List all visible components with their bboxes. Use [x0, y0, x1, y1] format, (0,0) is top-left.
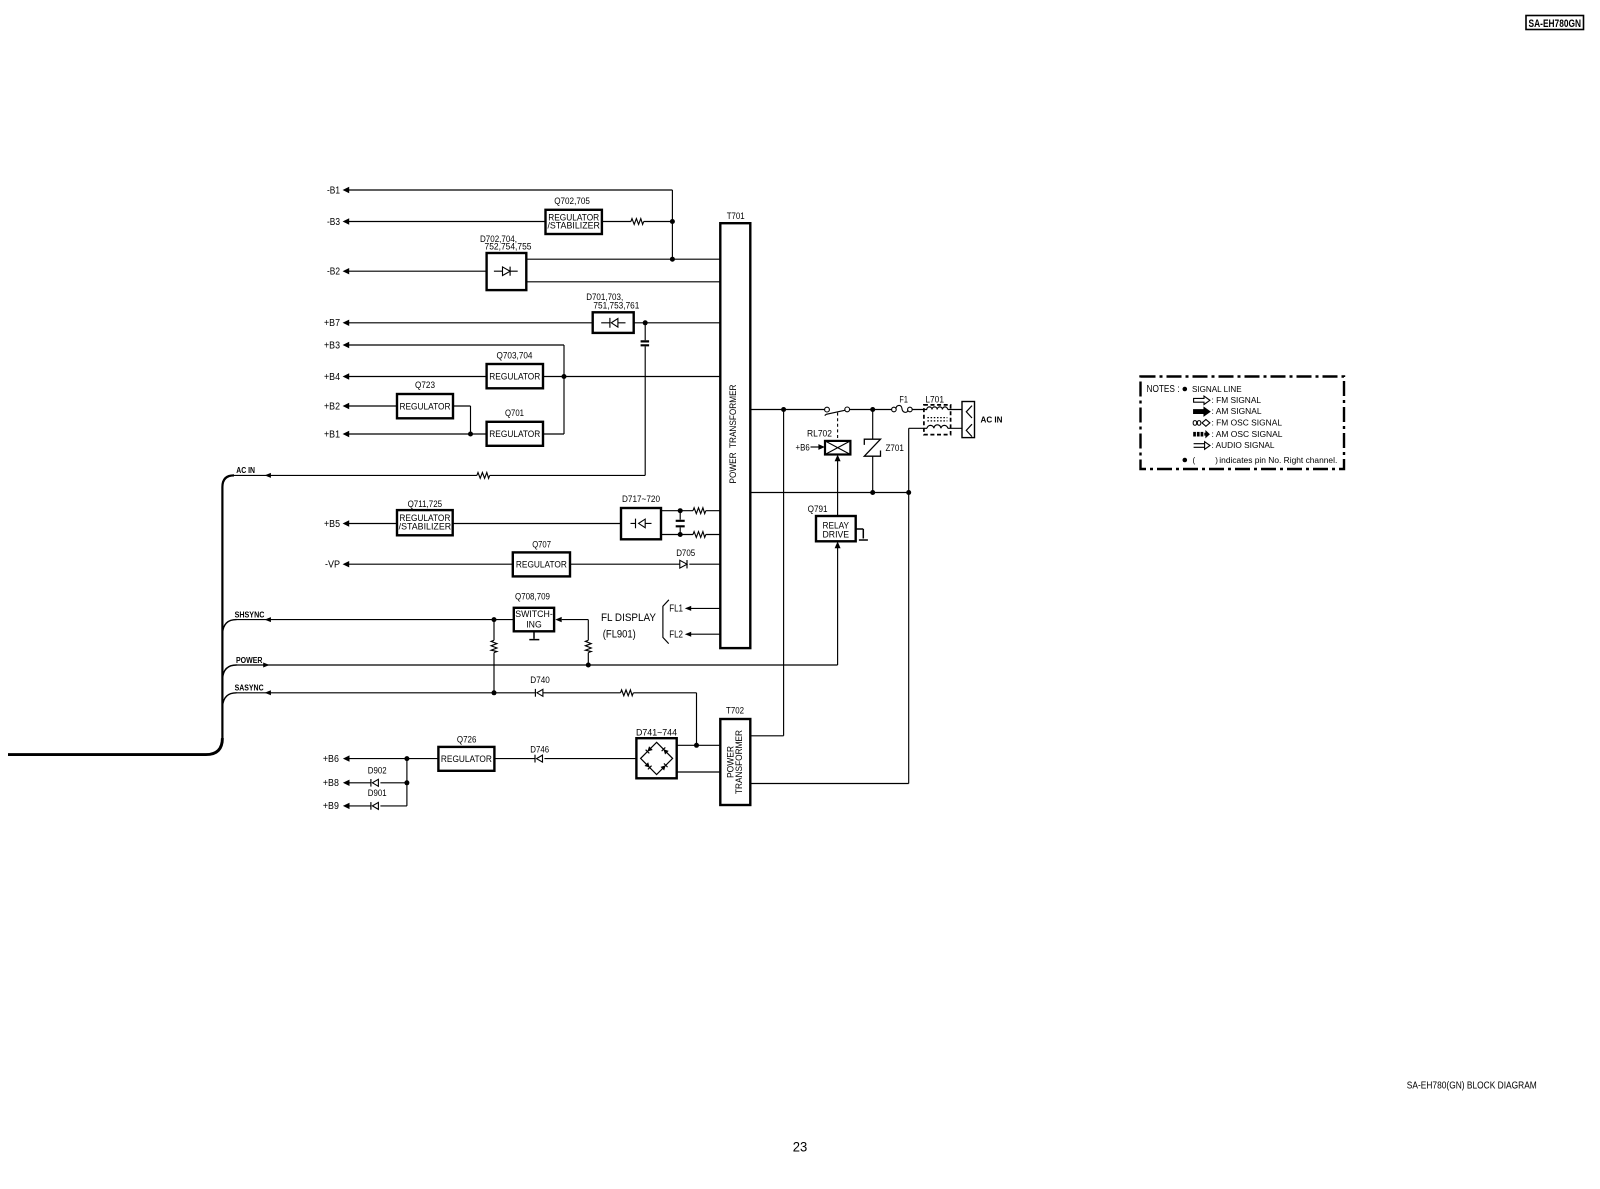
svg-text:FL2: FL2 — [669, 629, 683, 640]
regulator/stabilizer Q702,705 — [546, 196, 602, 234]
svg-text:REGULATOR: REGULATOR — [489, 372, 540, 382]
varistor Z701 — [864, 439, 904, 456]
svg-text:SA-EH780GN: SA-EH780GN — [1529, 18, 1582, 30]
svg-text:F1: F1 — [899, 394, 908, 404]
svg-text:+B6: +B6 — [796, 442, 810, 452]
svg-text:indicates pin No. Right channe: indicates pin No. Right channel. — [1219, 456, 1337, 465]
wire vertical to T702 right bottom — [750, 493, 908, 784]
junction T701 out/T702 branch — [781, 407, 786, 412]
resistor on AC IN line — [477, 473, 490, 479]
wire +B6 — [348, 758, 636, 760]
node +B3 label and arrow — [324, 340, 349, 351]
wire D702 output bottom — [526, 281, 720, 283]
power switch — [825, 407, 850, 416]
svg-text:D746: D746 — [530, 744, 549, 754]
wire -B2 — [348, 270, 487, 272]
junction D717 top/capacitor — [678, 508, 683, 513]
diode block D702,704,752,754,755 — [480, 234, 532, 290]
svg-text:: FM SIGNAL: : FM SIGNAL — [1212, 396, 1262, 405]
svg-text:SWITCH-: SWITCH- — [515, 609, 553, 619]
node +B6 into relay — [796, 442, 825, 452]
wire +B1 — [348, 433, 564, 435]
svg-text:D705: D705 — [676, 548, 695, 558]
junction -B1/D702 top — [670, 257, 675, 262]
svg-text:752,754,755: 752,754,755 — [485, 242, 532, 252]
relay drive Q791 — [808, 504, 856, 542]
wire Z701 branch — [872, 410, 874, 493]
node -VP label and arrow — [325, 560, 349, 571]
resistor on -B3 line — [631, 219, 644, 225]
junction +B4/+B3 — [562, 374, 567, 379]
junction SASYNC/bridge output — [694, 743, 699, 748]
svg-text:ING: ING — [526, 620, 542, 630]
wire bridge output top — [677, 744, 721, 746]
regulator Q701 — [487, 408, 543, 446]
svg-text:POWER: POWER — [236, 656, 263, 665]
dashed link switch to relay RL702 — [837, 413, 839, 441]
wire +B5 — [348, 523, 621, 525]
svg-text:REGULATOR: REGULATOR — [516, 560, 567, 570]
svg-text:-B1: -B1 — [327, 185, 340, 196]
svg-text:: FM OSC SIGNAL: : FM OSC SIGNAL — [1212, 419, 1283, 428]
svg-text:+B1: +B1 — [324, 429, 340, 440]
svg-text:SASYNC: SASYNC — [235, 683, 264, 692]
node +B4 label and arrow — [324, 372, 349, 383]
node SHSYNC label and arrow — [235, 611, 271, 623]
svg-text:Q723: Q723 — [415, 380, 435, 390]
svg-text:AC IN: AC IN — [236, 466, 255, 475]
wire vertical +B6/+B8/+B9 — [406, 759, 408, 806]
wire branch curve POWER — [223, 665, 237, 679]
legend AM signal arrow — [1194, 407, 1210, 415]
wire POWER — [236, 548, 838, 665]
node +B8 label and arrow — [323, 778, 350, 789]
wire SASYNC — [236, 693, 697, 746]
svg-text:D717~720: D717~720 — [622, 494, 660, 504]
wire left resistor branch SHSYNC to SASYNC — [493, 620, 495, 693]
node -B3 label and arrow — [327, 217, 349, 228]
wire harness bus vertical — [222, 475, 234, 739]
svg-text:POWER TRANSFORMER: POWER TRANSFORMER — [728, 384, 738, 483]
svg-text:REGULATOR: REGULATOR — [489, 429, 540, 439]
wire +B7 — [348, 322, 720, 324]
wire relay drive to relay coil with arrow — [835, 455, 841, 516]
wire -B3 — [348, 221, 672, 223]
node +B7 label and arrow — [324, 318, 349, 329]
resistor on SASYNC line — [621, 690, 634, 696]
node +B2 label and arrow — [324, 401, 349, 412]
svg-text:/STABILIZER: /STABILIZER — [547, 221, 600, 231]
svg-text:Q708,709: Q708,709 — [515, 592, 550, 602]
svg-text:Q711,725: Q711,725 — [408, 499, 443, 509]
fuse F1 — [892, 394, 913, 412]
svg-text:Q707: Q707 — [532, 540, 551, 550]
svg-text:(FL901): (FL901) — [603, 628, 636, 640]
regulator Q703,704 — [487, 351, 543, 389]
power transformer T701 — [720, 211, 750, 648]
svg-text:): ) — [1215, 456, 1218, 465]
wire branch curve SASYNC — [223, 693, 237, 706]
regulator Q707 — [513, 540, 570, 577]
svg-text:+B4: +B4 — [324, 372, 340, 383]
junction Z701/lower line — [870, 490, 875, 495]
svg-text:TRANSFORMER: TRANSFORMER — [734, 730, 744, 794]
svg-text:Q701: Q701 — [505, 408, 524, 418]
regulator Q726 — [438, 735, 494, 771]
diode D740 — [535, 689, 543, 697]
connector AC IN — [962, 402, 1003, 438]
wire +B8 — [348, 782, 407, 784]
svg-text:+B2: +B2 — [324, 401, 340, 412]
arrow into switching box — [555, 617, 561, 622]
svg-text:Q726: Q726 — [457, 735, 477, 745]
notes legend box — [1141, 377, 1345, 470]
svg-text:L701: L701 — [925, 394, 944, 404]
junction +B8 feed — [404, 780, 409, 785]
svg-text:Q703,704: Q703,704 — [497, 351, 533, 361]
legend FM OSC signal symbol — [1193, 421, 1196, 426]
model number plate SA-EH780GN — [1526, 16, 1584, 30]
svg-text:REGULATOR: REGULATOR — [441, 754, 492, 764]
ground under switching box — [529, 631, 539, 639]
wire vertical to T702 right top — [750, 410, 783, 736]
svg-text:FL DISPLAY: FL DISPLAY — [601, 612, 657, 624]
diode D901 — [371, 802, 379, 810]
svg-text:-B3: -B3 — [327, 217, 340, 228]
svg-text:AC IN: AC IN — [981, 416, 1003, 425]
node SASYNC label and arrow — [235, 683, 271, 695]
wire FL2 with arrow — [685, 632, 721, 637]
wire SHSYNC — [236, 619, 514, 621]
junction +B7/capacitor — [643, 320, 648, 325]
arrow POWER into relay drive — [835, 542, 841, 549]
svg-text:/STABILIZER: /STABILIZER — [399, 521, 452, 531]
junction AC return/lower line — [906, 490, 911, 495]
wire switch box right arm with vertical resistor — [562, 620, 589, 665]
wire +B9 — [348, 805, 407, 807]
wire -VP — [348, 563, 720, 565]
wire +B2 — [348, 406, 471, 434]
bracket for FL display pins — [663, 600, 669, 644]
svg-text:Q791: Q791 — [808, 504, 828, 514]
svg-text:: AM OSC SIGNAL: : AM OSC SIGNAL — [1212, 430, 1284, 439]
bridge rectifier D741~744 — [636, 728, 677, 779]
diode block D717~720 — [621, 494, 661, 539]
diode D705 — [680, 560, 687, 568]
line filter L701 — [924, 394, 951, 434]
svg-text:D741~744: D741~744 — [636, 728, 677, 738]
svg-text:SIGNAL LINE: SIGNAL LINE — [1192, 385, 1242, 394]
capacitor on D717 outputs — [679, 511, 681, 535]
wire branch curve SHSYNC — [223, 620, 237, 633]
svg-text:+B8: +B8 — [323, 778, 339, 789]
svg-text:+B9: +B9 — [323, 801, 339, 812]
svg-text:SA-EH780(GN) BLOCK DIAGRAM: SA-EH780(GN) BLOCK DIAGRAM — [1407, 1081, 1537, 1092]
legend AUDIO signal arrow — [1194, 444, 1205, 448]
junction SHSYNC/resistor — [492, 617, 497, 622]
legend FM signal arrow — [1194, 396, 1210, 404]
svg-text:23: 23 — [793, 1139, 808, 1155]
node POWER label and arrow — [236, 656, 270, 668]
wire FL1 with arrow — [685, 606, 721, 611]
junction switch/Z701 — [870, 407, 875, 412]
node +B5 label and arrow — [324, 519, 349, 530]
svg-text:(: ( — [1193, 456, 1196, 465]
svg-text:+B7: +B7 — [324, 318, 340, 329]
wire D702 output top — [526, 258, 720, 260]
regulator Q723 — [397, 380, 453, 418]
wire L701 bottom to lower line — [909, 428, 962, 492]
wire capacitor branch to AC line — [644, 323, 646, 476]
node AC IN left label and arrow — [236, 466, 271, 478]
svg-text:-VP: -VP — [325, 560, 340, 571]
diode block D701,703,751,753,761 — [586, 292, 639, 333]
junction SASYNC/resistor — [492, 690, 497, 695]
svg-text:: AUDIO SIGNAL: : AUDIO SIGNAL — [1212, 441, 1276, 450]
wire bridge output bottom — [677, 771, 721, 773]
switching Q708,709 — [514, 592, 554, 632]
junction D717 bottom/capacitor — [678, 532, 683, 537]
node +B6 label and arrow — [323, 754, 350, 765]
wire long line T701 right lower — [750, 492, 908, 494]
svg-text:+B3: +B3 — [324, 340, 340, 351]
wire harness bus bottom-left — [8, 738, 222, 755]
diode D746 — [535, 755, 543, 763]
svg-text:FL1: FL1 — [669, 604, 683, 615]
svg-text:Q702,705: Q702,705 — [554, 196, 590, 206]
svg-text:DRIVE: DRIVE — [823, 530, 850, 540]
wire D717 output bottom with resistor — [661, 534, 720, 536]
ground at relay drive — [856, 529, 868, 540]
node -B2 label and arrow — [327, 267, 349, 278]
junction +B6 feed — [404, 756, 409, 761]
node +B1 label and arrow — [324, 429, 349, 440]
wire +B4 — [348, 376, 720, 378]
wire AC IN line — [232, 474, 645, 476]
svg-text:SHSYNC: SHSYNC — [235, 611, 265, 620]
wire T701 right top to switch — [750, 409, 962, 411]
node +B9 label and arrow — [323, 801, 350, 812]
junction POWER/resistor — [586, 663, 591, 668]
svg-text:T701: T701 — [727, 211, 745, 221]
svg-text:D740: D740 — [530, 675, 550, 685]
svg-text:REGULATOR: REGULATOR — [400, 401, 451, 411]
power transformer T702 — [720, 706, 750, 806]
svg-text:-B2: -B2 — [327, 267, 340, 278]
relay RL702 — [807, 428, 850, 454]
svg-text:: AM SIGNAL: : AM SIGNAL — [1212, 407, 1263, 416]
svg-text:RL702: RL702 — [807, 428, 832, 438]
legend AM OSC signal symbol — [1193, 432, 1196, 437]
svg-text:D902: D902 — [368, 765, 387, 775]
capacitor C701 plates — [641, 341, 650, 345]
svg-text:NOTES :: NOTES : — [1147, 383, 1180, 395]
regulator/stabilizer Q711,725 — [397, 499, 453, 535]
svg-text:751,753,761: 751,753,761 — [593, 300, 639, 310]
legend pin number note — [1183, 458, 1188, 463]
wire -B1 — [348, 190, 672, 259]
wire D717 output top with resistor — [661, 510, 720, 512]
wire +B3 — [348, 345, 564, 434]
junction +B1/+B2 — [468, 432, 473, 437]
svg-text:+B5: +B5 — [324, 519, 340, 530]
svg-text:Z701: Z701 — [886, 443, 904, 453]
node -B1 label and arrow — [327, 185, 349, 196]
svg-text:+B6: +B6 — [323, 754, 339, 765]
svg-text:D901: D901 — [368, 788, 387, 798]
svg-text:T702: T702 — [726, 706, 744, 716]
junction -B3/-B1 — [670, 219, 675, 224]
diode D902 — [371, 779, 379, 787]
